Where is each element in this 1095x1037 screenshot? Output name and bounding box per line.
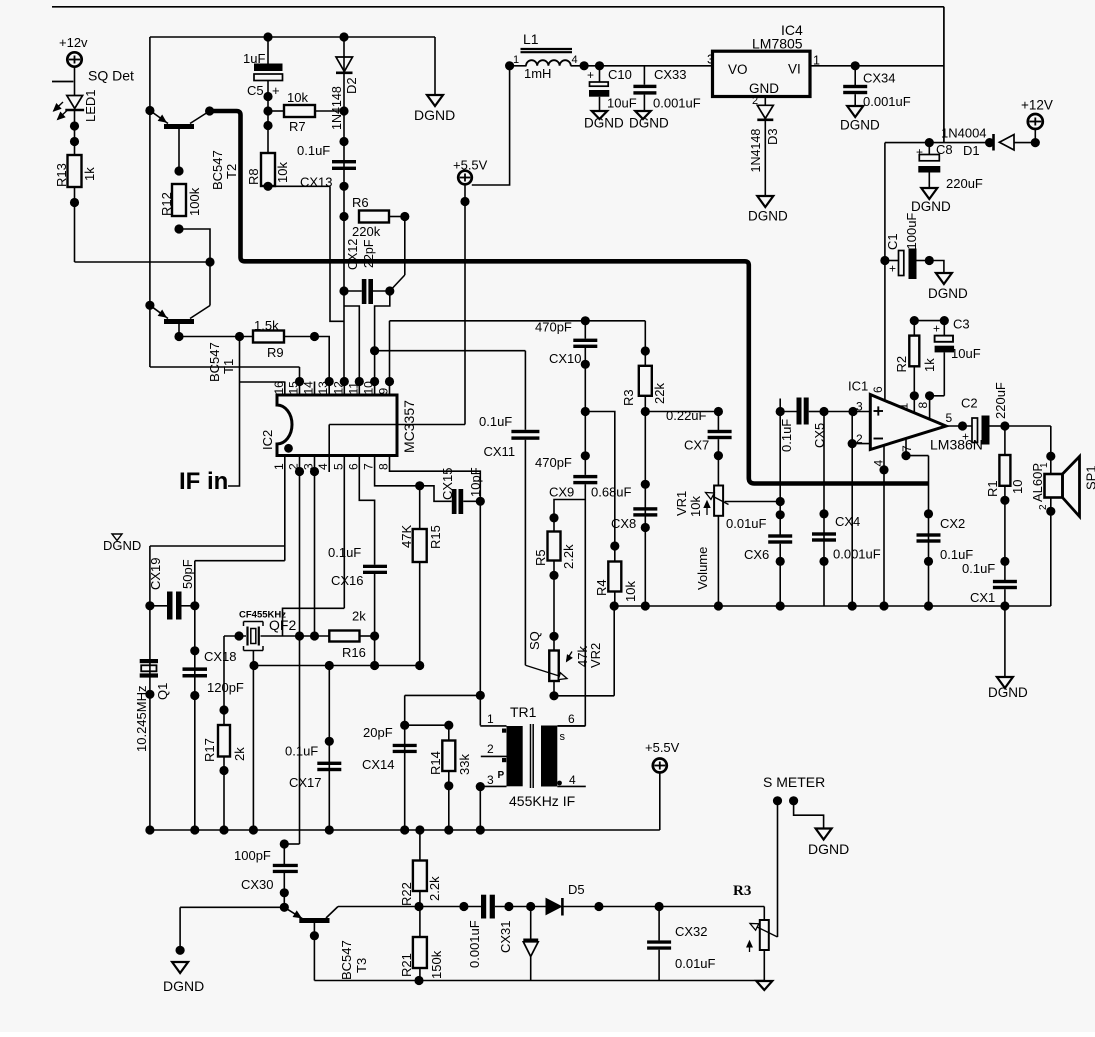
svg-text:0.001uF: 0.001uF: [863, 94, 911, 109]
svg-text:IC2: IC2: [260, 430, 275, 450]
svg-text:2.2k: 2.2k: [427, 876, 442, 901]
svg-text:20pF: 20pF: [363, 725, 393, 740]
svg-text:8: 8: [916, 402, 930, 409]
svg-text:C1: C1: [885, 233, 900, 250]
svg-text:CX7: CX7: [684, 438, 709, 453]
svg-text:455KHz IF: 455KHz IF: [509, 793, 575, 809]
svg-text:VI: VI: [788, 62, 801, 77]
svg-text:D1: D1: [963, 143, 980, 158]
svg-text:R7: R7: [289, 119, 306, 134]
svg-text:P: P: [498, 770, 505, 781]
svg-text:R2: R2: [894, 356, 909, 373]
svg-text:Volume: Volume: [695, 547, 710, 590]
svg-text:CX4: CX4: [835, 514, 860, 529]
svg-text:R5: R5: [533, 549, 548, 566]
svg-text:C2: C2: [961, 396, 978, 411]
svg-text:470pF: 470pF: [535, 455, 572, 470]
svg-text:SQ Det: SQ Det: [88, 68, 134, 84]
svg-text:VR2: VR2: [588, 643, 603, 668]
svg-text:CX13: CX13: [300, 175, 333, 190]
svg-text:4: 4: [569, 773, 576, 787]
svg-text:R8: R8: [246, 168, 261, 185]
svg-text:10k: 10k: [275, 162, 290, 183]
svg-text:0.1uF: 0.1uF: [779, 419, 794, 452]
svg-text:R22: R22: [399, 882, 414, 906]
svg-text:CX1: CX1: [970, 590, 995, 605]
svg-text:C5: C5: [247, 83, 264, 98]
svg-text:3: 3: [487, 773, 494, 787]
svg-text:T3: T3: [354, 958, 369, 973]
svg-text:+: +: [962, 430, 969, 444]
svg-text:IF in: IF in: [179, 468, 228, 495]
svg-text:s: s: [560, 731, 566, 743]
svg-text:10k: 10k: [623, 581, 638, 602]
svg-text:150k: 150k: [429, 950, 444, 979]
svg-text:0.001uF: 0.001uF: [833, 547, 881, 562]
svg-text:CX18: CX18: [204, 649, 237, 664]
svg-text:5: 5: [331, 463, 345, 470]
svg-text:1: 1: [487, 712, 494, 726]
svg-text:R3: R3: [621, 389, 636, 406]
svg-text:DGND: DGND: [629, 116, 669, 131]
svg-text:R13: R13: [54, 163, 69, 187]
svg-text:DGND: DGND: [911, 199, 951, 214]
svg-text:0.1uF: 0.1uF: [328, 545, 361, 560]
svg-text:+5.5V: +5.5V: [645, 740, 680, 755]
svg-text:L1: L1: [523, 31, 539, 47]
svg-text:R15: R15: [428, 525, 443, 549]
svg-text:6: 6: [568, 712, 575, 726]
svg-text:220uF: 220uF: [946, 176, 983, 191]
svg-text:10uF: 10uF: [951, 346, 981, 361]
svg-text:1: 1: [272, 463, 286, 470]
svg-text:SP1: SP1: [1084, 465, 1095, 490]
svg-text:R6: R6: [352, 195, 369, 210]
svg-text:0.68uF: 0.68uF: [591, 485, 632, 500]
svg-text:16: 16: [272, 381, 286, 395]
svg-text:+12V: +12V: [1021, 98, 1053, 113]
svg-text:T2: T2: [224, 164, 239, 179]
svg-text:TR1: TR1: [510, 704, 537, 720]
svg-text:DGND: DGND: [748, 209, 788, 224]
svg-text:47K: 47K: [399, 525, 414, 548]
svg-text:CX16: CX16: [331, 573, 364, 588]
svg-text:100pF: 100pF: [234, 848, 271, 863]
svg-text:BC547: BC547: [339, 940, 354, 980]
svg-text:MC3357: MC3357: [401, 400, 417, 453]
svg-text:0.01uF: 0.01uF: [675, 956, 716, 971]
svg-text:1uF: 1uF: [243, 51, 265, 66]
svg-text:DGND: DGND: [414, 107, 455, 123]
svg-text:CX31: CX31: [498, 920, 513, 953]
svg-text:0.1uF: 0.1uF: [479, 414, 512, 429]
svg-text:0.001uF: 0.001uF: [653, 96, 701, 111]
svg-text:VO: VO: [728, 62, 748, 77]
svg-text:6: 6: [346, 463, 360, 470]
svg-text:22k: 22k: [652, 383, 667, 404]
svg-text:0.01uF: 0.01uF: [726, 516, 767, 531]
svg-text:CX8: CX8: [611, 516, 636, 531]
svg-text:LM7805: LM7805: [752, 36, 803, 52]
svg-text:VR1: VR1: [674, 491, 689, 516]
svg-text:2: 2: [1038, 504, 1049, 510]
svg-text:0.1uF: 0.1uF: [285, 744, 318, 759]
svg-text:CX6: CX6: [744, 547, 769, 562]
svg-text:1N4148: 1N4148: [749, 129, 763, 173]
svg-text:10k: 10k: [688, 496, 703, 517]
svg-text:1: 1: [513, 54, 519, 66]
svg-text:100k: 100k: [187, 187, 202, 216]
svg-text:IC1: IC1: [848, 379, 868, 394]
svg-text:+: +: [587, 68, 594, 82]
svg-text:1k: 1k: [922, 358, 937, 372]
svg-text:0.001uF: 0.001uF: [467, 920, 482, 968]
svg-text:CX19: CX19: [148, 557, 163, 590]
svg-text:5: 5: [946, 411, 953, 425]
svg-text:CX17: CX17: [289, 775, 322, 790]
svg-text:S METER: S METER: [763, 774, 825, 790]
svg-text:2.2k: 2.2k: [561, 544, 576, 569]
svg-text:C10: C10: [608, 67, 632, 82]
svg-text:+: +: [933, 322, 940, 336]
svg-text:470pF: 470pF: [535, 320, 572, 335]
svg-text:1.5k: 1.5k: [254, 318, 279, 333]
svg-text:6: 6: [871, 386, 885, 393]
svg-text:R3: R3: [733, 883, 751, 899]
svg-text:1mH: 1mH: [524, 66, 551, 81]
svg-text:+: +: [916, 145, 923, 159]
svg-text:0.1uF: 0.1uF: [940, 547, 973, 562]
svg-text:7: 7: [900, 445, 914, 452]
svg-text:0.1uF: 0.1uF: [297, 143, 330, 158]
svg-text:DGND: DGND: [808, 841, 849, 857]
svg-text:CX11: CX11: [484, 444, 516, 459]
svg-text:BC547: BC547: [207, 342, 222, 382]
svg-text:22pF: 22pF: [362, 239, 376, 268]
svg-text:C3: C3: [953, 317, 970, 332]
svg-text:1N4004: 1N4004: [941, 126, 987, 141]
svg-text:100uF: 100uF: [904, 213, 919, 250]
svg-text:DGND: DGND: [988, 685, 1028, 700]
svg-text:DGND: DGND: [928, 286, 968, 301]
svg-text:220uF: 220uF: [993, 382, 1008, 419]
svg-text:R16: R16: [342, 645, 366, 660]
svg-text:R12: R12: [159, 192, 174, 216]
svg-text:SQ: SQ: [527, 631, 542, 650]
svg-text:0.22uF: 0.22uF: [666, 408, 707, 423]
svg-text:D3: D3: [765, 128, 780, 145]
svg-text:CX10: CX10: [549, 351, 582, 366]
svg-text:8: 8: [377, 463, 391, 470]
svg-text:50pF: 50pF: [180, 559, 195, 589]
svg-text:120pF: 120pF: [207, 680, 244, 695]
svg-text:CX14: CX14: [362, 757, 395, 772]
svg-text:4: 4: [572, 54, 578, 66]
svg-text:10k: 10k: [287, 90, 308, 105]
svg-text:2: 2: [487, 742, 494, 756]
svg-text:LM386N: LM386N: [930, 437, 983, 453]
svg-text:33k: 33k: [457, 754, 472, 775]
svg-text:DGND: DGND: [840, 118, 880, 133]
svg-text:CX2: CX2: [940, 516, 965, 531]
svg-text:+5.5V: +5.5V: [453, 158, 488, 173]
svg-text:CX30: CX30: [241, 877, 274, 892]
svg-text:CX33: CX33: [654, 67, 687, 82]
svg-text:D2: D2: [344, 77, 359, 94]
svg-text:+: +: [889, 262, 896, 276]
svg-text:220k: 220k: [352, 224, 381, 239]
svg-text:BC547: BC547: [210, 150, 225, 190]
svg-text:QF2: QF2: [269, 617, 296, 633]
svg-text:2k: 2k: [232, 747, 247, 761]
svg-text:CX15: CX15: [440, 467, 455, 500]
svg-text:10uF: 10uF: [607, 96, 637, 111]
svg-text:CX9: CX9: [549, 485, 574, 500]
svg-text:Q1: Q1: [155, 683, 170, 700]
svg-text:DGND: DGND: [103, 538, 141, 553]
svg-text:0.1uF: 0.1uF: [962, 561, 995, 576]
svg-text:LED1: LED1: [83, 89, 98, 122]
svg-text:R4: R4: [594, 579, 609, 596]
svg-text:9: 9: [377, 388, 391, 395]
svg-text:CX12: CX12: [346, 239, 360, 270]
svg-text:1: 1: [1039, 462, 1050, 468]
svg-text:10: 10: [1010, 480, 1025, 494]
svg-text:CX34: CX34: [863, 71, 896, 86]
svg-text:R9: R9: [267, 345, 284, 360]
svg-text:R1: R1: [985, 480, 1000, 497]
svg-text:R17: R17: [202, 738, 217, 762]
svg-text:1: 1: [897, 403, 911, 410]
svg-text:GND: GND: [749, 81, 779, 96]
svg-text:R14: R14: [428, 751, 443, 775]
svg-text:DGND: DGND: [584, 116, 624, 131]
svg-text:2k: 2k: [352, 609, 366, 624]
svg-text:3: 3: [856, 400, 863, 414]
svg-text:D5: D5: [568, 882, 585, 897]
svg-text:+: +: [272, 83, 280, 98]
svg-text:1k: 1k: [82, 167, 97, 181]
svg-text:3: 3: [707, 53, 714, 67]
svg-text:7: 7: [362, 463, 376, 470]
svg-text:10pF: 10pF: [468, 467, 483, 497]
svg-text:C8: C8: [936, 142, 953, 157]
svg-text:R21: R21: [399, 953, 414, 977]
svg-text:+12v: +12v: [59, 35, 88, 50]
svg-text:CX32: CX32: [675, 924, 708, 939]
svg-text:DGND: DGND: [163, 978, 204, 994]
